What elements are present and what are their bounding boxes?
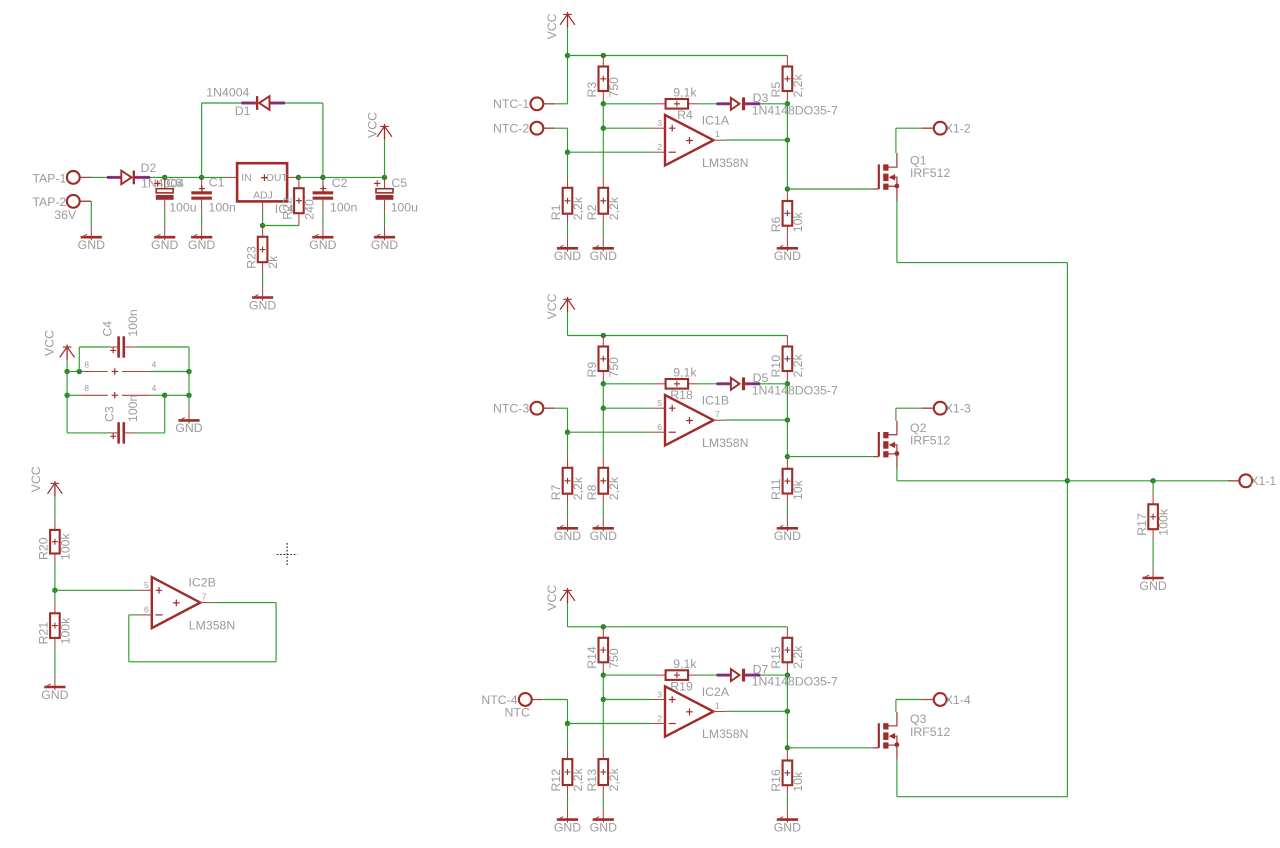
svg-text:2,2k: 2,2k: [791, 645, 805, 669]
junction rail-R750 channel 2: [601, 333, 605, 337]
wire C1 node up: [201, 103, 203, 177]
connector pin NTC-2 channel 1: [493, 122, 555, 136]
svg-text:GND: GND: [774, 529, 801, 543]
svg-text:240: 240: [303, 199, 317, 220]
ground R6 channel 1: [774, 237, 801, 263]
wire to R18 channel 2: [603, 383, 655, 385]
ground R7 channel 2: [554, 517, 581, 543]
voltage regulator IC4: [226, 163, 298, 216]
resistor R1: [549, 177, 585, 225]
diode D7: [717, 663, 838, 689]
svg-text:100u: 100u: [391, 201, 419, 215]
svg-text:1N4148DO35-7: 1N4148DO35-7: [752, 383, 838, 397]
wire row2 left stub: [67, 394, 81, 396]
wire TAP-2 down: [90, 201, 92, 225]
ground R13 channel 3: [590, 808, 617, 834]
junction OUT node: [296, 175, 300, 179]
svg-text:C4: C4: [101, 321, 115, 337]
wire R16 to GND channel 3: [786, 796, 788, 808]
resistor R2: [585, 177, 621, 225]
junction row2 right: [187, 393, 191, 397]
wire feedback to -input: [129, 614, 138, 616]
wire gate channel 1: [787, 188, 872, 190]
junction bus X1-1: [1065, 479, 1069, 483]
wire VCC rail channel 3: [568, 626, 788, 628]
wire feedback bottom: [129, 661, 276, 663]
junction feedback node channel 1: [601, 102, 605, 106]
lead C6 top: [164, 177, 166, 188]
lead C1 top: [201, 177, 203, 191]
resistor R13: [585, 748, 621, 796]
wire C3 right: [135, 432, 165, 434]
svg-text:GND: GND: [41, 688, 68, 702]
resistor R19: [655, 657, 699, 694]
junction VCC rail channel 1: [565, 53, 569, 57]
svg-text:IC1A: IC1A: [702, 114, 730, 128]
wire R17 to GND: [1152, 540, 1154, 566]
svg-text:R14: R14: [585, 646, 599, 669]
svg-text:X1-1: X1-1: [1250, 474, 1276, 488]
svg-text:9,1k: 9,1k: [673, 86, 697, 100]
junction rail-R750 channel 1: [601, 53, 605, 57]
supply VCC bypass: [43, 330, 75, 372]
svg-text:VCC: VCC: [43, 330, 57, 356]
lead C2 bottom: [322, 199, 324, 211]
svg-text:IN: IN: [241, 173, 251, 184]
junction gate node channel 2: [785, 454, 789, 458]
op-amp IC2B: [138, 576, 235, 633]
svg-text:R12: R12: [549, 769, 563, 792]
wire to R7 channel 2: [567, 432, 569, 457]
wire drain to X1-4 channel 3: [896, 699, 922, 701]
wire row2 right b: [165, 394, 189, 396]
svg-text:10k: 10k: [791, 479, 805, 500]
resistor R14: [585, 627, 621, 674]
wire output channel 1: [726, 139, 788, 141]
svg-text:IC2A: IC2A: [702, 685, 730, 699]
wire NTC-2 down channel 1: [567, 128, 569, 152]
resistor R17: [1135, 493, 1171, 540]
wire NTC-1 to VCC channel 1: [555, 103, 567, 105]
svg-text:IC2B: IC2B: [189, 576, 216, 590]
svg-text:GND: GND: [554, 249, 581, 263]
wire to R8 channel 2: [602, 408, 604, 457]
svg-text:R16: R16: [769, 769, 783, 792]
wire output column channel 1: [786, 104, 788, 189]
svg-text:C6: C6: [166, 176, 182, 190]
svg-text:GND: GND: [249, 298, 276, 312]
supply VCC channel 1: [545, 12, 575, 39]
wire C4 left up: [78, 347, 80, 372]
wire ADJ node: [262, 213, 264, 226]
svg-text:NTC: NTC: [505, 706, 530, 720]
svg-text:VCC: VCC: [545, 585, 559, 611]
resistor R12: [549, 748, 585, 796]
junction output node channel 2: [785, 418, 789, 422]
wire down to C2 node: [322, 103, 324, 177]
junction C6 node: [163, 175, 167, 179]
resistor R4: [655, 86, 699, 123]
connector pin TAP-2: [32, 195, 91, 209]
ground C5: [371, 226, 398, 252]
svg-text:9,1k: 9,1k: [673, 366, 697, 380]
ground R16 channel 3: [774, 808, 801, 834]
junction row2 C3 tap: [163, 393, 167, 397]
resistor R11: [769, 458, 805, 505]
wire C4 left: [79, 346, 108, 348]
svg-text:1: 1: [715, 129, 720, 139]
wire R23 to GND: [262, 273, 264, 286]
svg-text:100u: 100u: [169, 201, 197, 215]
wire noninv input channel 3: [603, 699, 651, 701]
wire inv input channel 2: [568, 431, 652, 433]
lead TAP-2 out: [80, 200, 92, 202]
svg-text:2,2k: 2,2k: [791, 353, 805, 377]
wire VCC stem channel 3: [567, 604, 569, 627]
svg-text:10k: 10k: [791, 771, 805, 792]
svg-text:R3: R3: [585, 82, 599, 98]
wire C6 to GND: [164, 211, 166, 226]
wire bypass left down: [66, 395, 68, 433]
svg-text:R2: R2: [585, 204, 599, 220]
wire drain down channel 3: [895, 700, 897, 712]
connector pin TAP-1: [32, 171, 91, 185]
wire R1 to GND channel 1: [567, 225, 569, 237]
supply VCC channel 3: [545, 585, 575, 611]
svg-text:750: 750: [607, 648, 621, 669]
svg-text:6: 6: [657, 422, 662, 432]
lead C1 bottom: [201, 199, 203, 211]
supply VCC main: [366, 112, 392, 177]
svg-text:R5: R5: [769, 82, 783, 98]
ground C6: [151, 226, 178, 252]
transistor Q1: [873, 153, 951, 201]
svg-text:R10: R10: [769, 355, 783, 378]
svg-text:9,1k: 9,1k: [673, 657, 697, 671]
wire to R17: [1152, 481, 1154, 494]
wire D3 to node channel 1: [760, 103, 787, 105]
ground C1: [188, 226, 215, 252]
svg-text:2k: 2k: [266, 255, 280, 269]
svg-text:100n: 100n: [209, 201, 237, 215]
svg-text:5: 5: [144, 580, 149, 590]
wire node to R21: [54, 590, 56, 602]
svg-text:GND: GND: [175, 421, 202, 435]
svg-text:GND: GND: [590, 529, 617, 543]
wire C1 to GND: [201, 211, 203, 226]
svg-text:100k: 100k: [1157, 508, 1171, 536]
ground R12 channel 3: [554, 808, 581, 834]
resistor R8: [585, 457, 621, 505]
svg-text:GND: GND: [78, 238, 105, 252]
wire divider channel 2: [602, 384, 604, 408]
svg-text:750: 750: [607, 77, 621, 98]
svg-text:3: 3: [657, 118, 662, 128]
wire R2 to GND channel 1: [602, 225, 604, 237]
wire source down channel 3: [896, 760, 898, 797]
wire row1 left stub: [67, 371, 81, 373]
svg-text:6: 6: [144, 605, 149, 615]
connector pin NTC-4 channel 3: [481, 693, 543, 707]
svg-text:GND: GND: [151, 238, 178, 252]
wire to R19 channel 3: [603, 674, 655, 676]
wire feedback left up: [128, 615, 130, 662]
svg-text:R9: R9: [585, 362, 599, 378]
svg-text:2,2k: 2,2k: [607, 196, 621, 220]
resistor R20: [37, 519, 73, 565]
ground R21: [41, 676, 68, 702]
svg-text:IRF512: IRF512: [910, 725, 950, 739]
junction output node channel 1: [785, 138, 789, 142]
wire ADJ to R22: [263, 225, 299, 227]
connector pin X1-1: [1228, 474, 1277, 488]
wire feedback right down: [275, 603, 277, 662]
wire D5 to node channel 2: [760, 383, 787, 385]
wire to R12 channel 3: [567, 724, 569, 749]
svg-text:8: 8: [84, 359, 89, 369]
wire source to bus channel 3: [897, 796, 1068, 798]
wire source down channel 2: [896, 469, 898, 481]
svg-text:1: 1: [715, 701, 720, 711]
svg-text:100n: 100n: [126, 394, 140, 422]
svg-text:IC1B: IC1B: [702, 394, 729, 408]
junction diode-R node channel 2: [785, 382, 789, 386]
lead C5 bottom: [384, 200, 386, 211]
junction feedback node channel 3: [601, 673, 605, 677]
wire VCC rail channel 2: [568, 335, 788, 337]
wire R20 to node: [54, 565, 56, 591]
svg-text:3: 3: [657, 689, 662, 699]
svg-text:LM358N: LM358N: [189, 619, 235, 633]
svg-text:VCC: VCC: [545, 293, 559, 319]
svg-text:C5: C5: [391, 176, 407, 190]
ground R17: [1139, 567, 1166, 593]
wire NTC-3 channel 2: [555, 407, 567, 409]
wire row2 right a: [150, 394, 165, 396]
svg-text:LM358N: LM358N: [702, 727, 748, 741]
junction gate node channel 3: [785, 746, 789, 750]
wire inv input channel 1: [568, 151, 652, 153]
wire OUT to C2: [298, 176, 323, 178]
wire D2 to C6 node: [150, 176, 165, 178]
wire bypass right vertical: [188, 347, 190, 395]
lead C5 top: [384, 177, 386, 188]
svg-text:R8: R8: [585, 484, 599, 500]
svg-text:GND: GND: [554, 820, 581, 834]
svg-text:C3: C3: [103, 406, 117, 422]
svg-text:100k: 100k: [59, 532, 73, 560]
svg-text:GND: GND: [774, 249, 801, 263]
ground R23: [249, 286, 276, 312]
junction inv node channel 1: [565, 150, 569, 154]
svg-text:R11: R11: [769, 478, 783, 500]
junction noninv node channel 2: [601, 406, 605, 410]
junction diode-R node channel 3: [785, 673, 789, 677]
svg-text:10k: 10k: [791, 212, 805, 233]
wire R6 to GND channel 1: [786, 236, 788, 238]
resistor R6: [769, 190, 805, 237]
wire drain to X1-3 channel 2: [896, 407, 922, 409]
svg-text:2,2k: 2,2k: [571, 196, 585, 220]
capacitor C4: [101, 309, 141, 358]
junction bypass row1 left: [65, 369, 69, 373]
junction inv node channel 2: [565, 430, 569, 434]
svg-text:IRF512: IRF512: [910, 434, 950, 448]
junction row1 C4 tap: [77, 369, 81, 373]
ground R1 channel 1: [554, 237, 581, 263]
svg-text:NTC-1: NTC-1: [493, 97, 529, 111]
resistor R16: [769, 750, 805, 797]
svg-text:R1: R1: [549, 204, 563, 220]
capacitor C6: [154, 176, 197, 215]
wire to IC4 IN: [202, 176, 226, 178]
svg-text:1N4148DO35-7: 1N4148DO35-7: [752, 675, 838, 689]
svg-text:36V: 36V: [54, 208, 77, 222]
resistor R7: [549, 457, 585, 505]
svg-text:GND: GND: [590, 820, 617, 834]
capacitor C2: [313, 176, 358, 215]
wire output channel 3: [726, 710, 788, 712]
ground C2: [309, 226, 336, 252]
wire VCC stem to NTC row channel 1: [567, 28, 569, 104]
wire gate channel 2: [787, 456, 872, 458]
wire R4 to D3 channel 1: [698, 103, 716, 105]
wire right to GND: [188, 395, 190, 409]
power pins IC1 (8/4): [81, 359, 156, 374]
supply VCC channel 2: [545, 293, 575, 319]
op-amp IC1B: [651, 394, 748, 450]
wire C4 right: [135, 346, 190, 348]
resistor R3: [585, 56, 621, 103]
supply VCC IC2B: [29, 466, 62, 519]
ground bypass: [175, 409, 202, 435]
wire bypass left vertical: [66, 372, 68, 396]
wire R12 to GND channel 3: [567, 796, 569, 808]
svg-text:R6: R6: [769, 216, 783, 232]
diode D2: [107, 161, 184, 191]
wire to R13 channel 3: [602, 700, 604, 749]
lead C6 bottom: [164, 200, 166, 211]
junction noninv node channel 3: [601, 697, 605, 701]
svg-text:2: 2: [657, 142, 662, 152]
wire inv input channel 3: [568, 723, 652, 725]
svg-text:X1-2: X1-2: [945, 122, 971, 136]
svg-text:R4: R4: [677, 108, 693, 122]
connector pin NTC-1 channel 1: [493, 97, 555, 111]
wire R13 to GND channel 3: [602, 796, 604, 808]
svg-text:R23: R23: [244, 246, 258, 269]
junction C2 node: [321, 175, 325, 179]
wire source to bus channel 1: [897, 262, 1068, 264]
junction diode-R node channel 1: [785, 102, 789, 106]
svg-text:2,2k: 2,2k: [571, 767, 585, 791]
wire C5 to GND: [384, 211, 386, 226]
wire source to bus channel 2: [897, 480, 1068, 482]
diode D1: [206, 86, 285, 119]
wire row1 right: [150, 371, 189, 373]
svg-text:GND: GND: [590, 249, 617, 263]
capacitor C1: [191, 176, 236, 215]
wire to R4 channel 1: [603, 103, 655, 105]
lead R22 bottom ext: [298, 224, 300, 226]
junction bypass row2 left: [65, 393, 69, 397]
svg-text:2,2k: 2,2k: [571, 476, 585, 500]
wire R7 to GND channel 2: [567, 505, 569, 517]
junction C1 node: [199, 175, 203, 179]
svg-text:ADJ: ADJ: [253, 191, 273, 202]
svg-text:VCC: VCC: [29, 466, 43, 492]
junction feedback node channel 2: [601, 382, 605, 386]
svg-text:D1: D1: [235, 104, 251, 118]
resistor R23: [244, 226, 280, 273]
junction C5 node: [382, 175, 386, 179]
resistor R22: [281, 177, 317, 224]
resistor R18: [655, 366, 699, 403]
svg-text:GND: GND: [1139, 579, 1166, 593]
resistor R10: [769, 336, 805, 383]
wire R18 to D5 channel 2: [698, 383, 716, 385]
svg-text:7: 7: [715, 409, 720, 419]
svg-text:R20: R20: [37, 537, 51, 560]
wire drain to X1-2 channel 1: [896, 127, 922, 129]
ground R11 channel 2: [774, 517, 801, 543]
ground R8 channel 2: [590, 517, 617, 543]
svg-text:4: 4: [152, 383, 157, 393]
junction inv node channel 3: [565, 721, 569, 725]
svg-text:GND: GND: [554, 529, 581, 543]
wire D7 to node channel 3: [760, 674, 787, 676]
svg-text:R7: R7: [549, 484, 563, 500]
power pins IC2 (8/4): [81, 383, 156, 398]
wire NTC-2 channel 1: [555, 127, 567, 129]
svg-text:1N4004: 1N4004: [206, 86, 249, 100]
wire NTC-3 down channel 2: [567, 408, 569, 432]
svg-text:100n: 100n: [126, 309, 140, 337]
wire output column channel 2: [786, 384, 788, 457]
wire noninv input channel 2: [603, 407, 651, 409]
svg-text:VCC: VCC: [545, 13, 559, 39]
junction noninv node channel 1: [601, 126, 605, 130]
wire to R2 channel 1: [602, 128, 604, 177]
wire R8 to GND channel 2: [602, 505, 604, 517]
svg-text:R22: R22: [281, 197, 295, 220]
svg-text:X1-3: X1-3: [945, 402, 971, 416]
svg-text:750: 750: [607, 357, 621, 378]
diode D3: [717, 91, 838, 117]
resistor R15: [769, 627, 805, 674]
ground TAP-2: [78, 226, 105, 252]
svg-text:R17: R17: [1135, 513, 1149, 536]
wire VCC rail channel 1: [568, 55, 788, 57]
wire drain down channel 2: [895, 408, 897, 421]
wire divider channel 1: [602, 104, 604, 128]
resistor R5: [769, 56, 805, 103]
svg-text:C1: C1: [209, 176, 225, 190]
junction divider IC2B: [53, 588, 57, 592]
svg-text:D2: D2: [141, 161, 157, 175]
transistor Q2: [873, 421, 951, 469]
svg-text:X1-4: X1-4: [945, 693, 971, 707]
svg-text:GND: GND: [774, 820, 801, 834]
junction gate node channel 1: [785, 187, 789, 191]
wire drain bus vertical: [1066, 263, 1068, 797]
wire source down channel 1: [896, 201, 898, 263]
wire drain down channel 1: [895, 128, 897, 153]
svg-text:GND: GND: [188, 238, 215, 252]
svg-text:TAP-2: TAP-2: [32, 195, 66, 209]
svg-text:VCC: VCC: [366, 112, 380, 138]
svg-text:2,2k: 2,2k: [607, 767, 621, 791]
